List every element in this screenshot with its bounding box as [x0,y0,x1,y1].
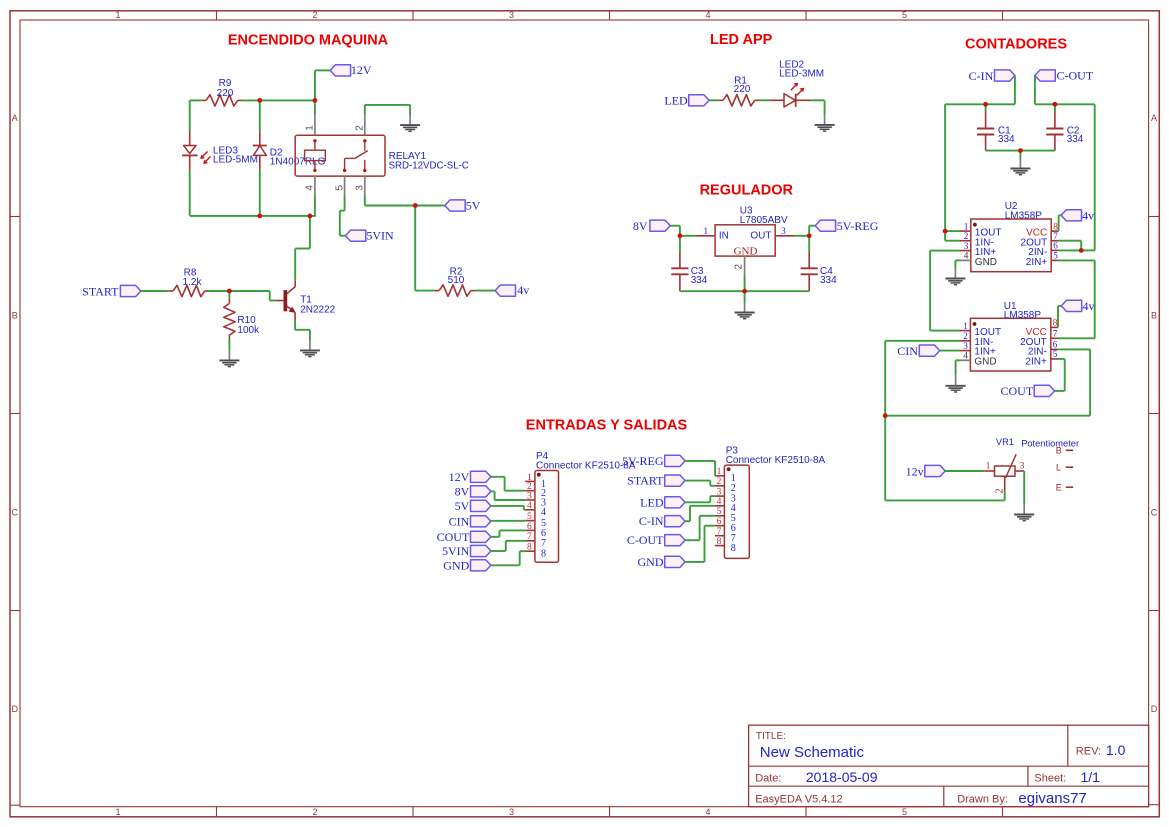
diode D2 [253,131,267,170]
U1 pin 6 stub [1051,348,1058,350]
U1 pin name 1OUT [974,327,1001,338]
svg-text:3: 3 [781,226,786,236]
wire R1 to LED2 [759,99,770,101]
relay pin 5 number [334,185,345,191]
U2 pin name GND [975,257,997,268]
svg-text:LM358P: LM358P [1004,310,1042,321]
svg-text:GND: GND [974,356,996,367]
svg-text:COUT: COUT [1001,384,1034,398]
svg-text:4: 4 [717,497,722,507]
capacitor C2 [1046,112,1063,151]
svg-text:5VIN: 5VIN [366,229,394,243]
relay pin 4 stub [314,176,316,195]
svg-text:GND: GND [638,555,664,569]
svg-text:C: C [1151,508,1158,518]
P3 outer pin numbers 1-8 [717,467,722,547]
svg-text:2: 2 [963,331,968,341]
value label 100k (R10) [237,325,260,336]
svg-text:5VIN: 5VIN [442,544,470,558]
svg-text:START: START [82,284,119,298]
title block label EasyEDA V5.4.12 [755,793,842,805]
node junction 12V-pin1 [313,98,318,103]
label LED3 [213,146,238,157]
title block text 1.0 [1106,742,1126,758]
svg-text:1: 1 [115,807,120,817]
svg-text:334: 334 [691,275,708,286]
node junction OUT-C4 [807,233,812,238]
connector P4 body [535,471,559,563]
wire C2 top lead [1054,104,1056,111]
svg-text:4v: 4v [517,283,529,297]
ruler row letters right [1151,113,1158,714]
U1 pin 3 stub [960,350,971,352]
value label Potentiometer (VR1) [1021,439,1079,449]
wire 8V to P4 pin3 [491,491,525,500]
U2 pin 2 stub [960,240,971,242]
wire 12v to VR1 pin1 [945,470,984,472]
svg-text:OUT: OUT [750,231,771,242]
node junction U2 pin6/7/C-OUT [1079,248,1084,253]
wire VR1 pin3 to ground [1023,471,1025,505]
ground (relay pin 2) [400,115,420,131]
U2 pin 5 stub [1051,259,1058,261]
U2 pin name 2IN- [1028,247,1047,258]
U3 pin name IN [719,231,729,242]
title block text egivans77 [1018,790,1086,807]
svg-text:LED: LED [640,495,664,509]
net flag START [82,284,141,298]
value label 334 (C1) [998,134,1015,145]
value label 510 (R2) [448,275,465,286]
net flag 5VIN [345,229,394,243]
relay switch contact [345,141,368,171]
LED2 emission arrows [791,83,804,96]
svg-text:1/1: 1/1 [1081,769,1101,785]
wire 5VIN to P4 pin7 [491,541,525,551]
wire GND to P4 pin8 [491,551,525,565]
svg-text:2: 2 [355,125,366,131]
P4 inner pin numbers 1-8 [541,479,546,560]
svg-text:5: 5 [1053,349,1058,359]
svg-text:2: 2 [995,489,1006,494]
title block label REV: [1076,745,1101,757]
label VR1 [996,437,1014,447]
svg-text:2: 2 [312,10,317,20]
net flag 12v (VR1) [906,464,946,478]
title block text 1/1 [1081,769,1101,785]
svg-text:LED APP: LED APP [710,32,773,48]
ruler row letters left [12,113,19,714]
ground (C1 C2) [1010,159,1030,175]
svg-text:3: 3 [355,185,366,191]
wire C1 top lead [985,104,987,111]
svg-text:START: START [627,474,664,488]
svg-text:8: 8 [1053,221,1058,231]
svg-text:TITLE:: TITLE: [756,731,786,742]
svg-text:egivans77: egivans77 [1018,790,1086,807]
svg-text:5: 5 [527,512,532,522]
relay pin 3 stub [364,176,366,195]
net flag C-OUT (P3) [627,533,685,547]
wire COUT to P4 pin6 [491,530,525,536]
U1 pin 2 number [963,331,968,341]
label R9 [219,78,232,89]
transistor T1 [275,281,296,321]
section title REGULADOR [700,183,794,199]
wire C3 top [679,236,681,252]
relay pin 4 number [305,185,316,191]
U2 pin 5 number [1053,251,1058,261]
node junction R9-D2 [257,98,262,103]
svg-text:2IN+: 2IN+ [1025,356,1047,367]
U2 pin name 1IN+ [975,247,997,258]
VR1 terminal mark E [1056,482,1073,492]
regulator U3 pin 3 stub [775,235,794,237]
resistor R9 [202,95,242,106]
wire regulator ground rail [680,276,809,303]
svg-text:5: 5 [902,10,907,20]
svg-text:C-IN: C-IN [639,514,664,528]
svg-text:LM358P: LM358P [1005,210,1043,221]
svg-text:1: 1 [986,460,991,470]
U1 pin 6 number [1053,340,1058,350]
op-amp U1 body [970,318,1050,371]
U1 pin name GND [974,356,996,367]
wire U2 pin6 to node [1059,249,1095,251]
resistor R10 [224,299,235,339]
VR1 pin 1 number [986,460,991,470]
U3 pin name GND [734,245,758,257]
U2 pin 6 stub [1051,249,1058,251]
node junction R8-R10 [227,289,232,294]
U2 pin 8 number [1053,221,1058,231]
svg-text:2018-05-09: 2018-05-09 [806,769,878,785]
value label LED-5MM (LED3) [213,155,258,166]
ruler column numbers top [115,10,907,20]
wire LED to P3 pin3 [685,496,715,502]
label R1 [734,75,747,86]
wire LED flag to R1 [709,99,719,101]
wire C-IN to P3 pin4 [685,506,715,521]
value label 1N4007RLG (D2) [270,156,326,167]
svg-text:ENCENDIDO MAQUINA: ENCENDIDO MAQUINA [228,33,389,49]
svg-text:3: 3 [509,10,514,20]
value label SRD-12VDC-SL-C (RELAY1) [389,160,469,171]
wire U2 pin5 to U1 pin7 [1058,260,1095,338]
svg-text:CIN: CIN [449,514,470,528]
net flag C-OUT [1035,68,1094,82]
U2 pin name 1OUT [975,228,1002,239]
U2 pin name 1IN- [975,237,994,248]
node junction D2-bottom [257,214,262,219]
svg-text:3: 3 [717,488,722,498]
U1 pin name 2IN- [1028,347,1047,358]
wire collector branch [295,216,310,281]
wire 5V-REG to P3 pin1 [685,461,715,476]
label C1 [998,125,1011,136]
wire emitter to ground [295,321,310,341]
net flag GND (P3) [638,555,686,569]
wire R10 top lead [228,291,230,299]
wire START to P3 pin2 [685,481,715,486]
wire bottom rail of relay loop [190,215,316,217]
net flag LED [664,94,709,108]
ground (U2) [945,269,965,285]
value label 334 (C4) [820,275,837,286]
svg-text:6: 6 [717,517,722,527]
potentiometer VR1 pin 1 stub [984,470,994,472]
node junction 8V-C3 [678,233,683,238]
wire R2 to 4v flag [475,290,495,292]
U2 pin name VCC [1026,228,1047,239]
svg-text:2IN+: 2IN+ [1026,257,1048,268]
svg-text:220: 220 [217,88,234,99]
title block label Sheet: [1034,773,1066,785]
wire U2 pin4 to ground [955,260,960,268]
svg-text:5V-REG: 5V-REG [622,454,664,468]
wire C-OUT rail [1035,76,1095,251]
svg-text:334: 334 [820,275,837,286]
svg-text:Connector KF2510-8A: Connector KF2510-8A [536,460,636,471]
svg-text:CIN: CIN [897,344,918,358]
svg-text:7: 7 [541,538,546,549]
wire U2 pin1-pin2 tie [945,231,960,241]
svg-text:C-OUT: C-OUT [1057,68,1094,82]
value label 220 (R1) [734,84,751,95]
title block text 2018-05-09 [806,769,878,785]
svg-text:LED-3MM: LED-3MM [779,68,824,79]
U1 pin 5 stub [1051,358,1058,360]
svg-text:6: 6 [527,522,532,532]
svg-text:3: 3 [509,807,514,817]
LED3 emission arrows [200,152,210,165]
svg-text:1.2k: 1.2k [183,277,203,288]
wire LED2 to ground [811,100,825,115]
label RELAY1 [389,151,427,162]
svg-text:6: 6 [541,528,546,539]
wire LED3 branch lower [189,170,191,216]
svg-text:7: 7 [1053,329,1058,339]
section title CONTADORES [965,37,1067,53]
value label 334 (C2) [1067,134,1084,145]
net flag CIN (P4) [449,514,491,528]
wire bottom rail to VR1 pin2 [885,491,1005,501]
svg-text:4v: 4v [1082,208,1094,222]
U1 pin 8 stub [1051,326,1058,328]
U2 pin 2 number [964,231,969,241]
U2 pin 7 number [1053,231,1058,241]
U1 pin name 2OUT [1020,337,1047,348]
ground (R10) [219,350,239,366]
node junction pin4-collector [308,214,313,219]
svg-text:5: 5 [1053,251,1058,261]
U1 pin name VCC [1026,327,1047,338]
value label 2N2222 (T1) [300,304,335,315]
svg-text:E: E [1056,482,1062,492]
value label Connector KF2510-8A (P4) [536,460,636,471]
net flag 8V (P4) [455,484,491,498]
svg-text:5V-REG: 5V-REG [837,219,879,233]
U2 pin 3 number [964,241,969,251]
resistor R8 [169,285,209,296]
value label LM358P (U1) [1004,310,1042,321]
svg-text:GND: GND [975,257,997,268]
wire LED3 branch upper [189,100,191,131]
node junction GND rail [742,289,747,294]
svg-text:1.0: 1.0 [1106,742,1126,758]
P3 inner pin numbers 1-8 [731,473,736,554]
svg-text:5V: 5V [466,198,481,212]
connector P3 pin stubs 1-8 [715,476,725,546]
potentiometer VR1 pin 2 stub [1004,476,1006,491]
U2 pin 7 stub [1051,240,1058,242]
net flag LED (P3) [640,495,685,509]
svg-text:8: 8 [541,549,546,560]
frame corner connector bottom-left [10,804,20,806]
wire 5V to P4 pin4 [491,506,525,510]
U1 pin 4 number [963,351,968,361]
svg-text:4: 4 [964,251,969,261]
potentiometer VR1 body [995,454,1017,478]
svg-text:SRD-12VDC-SL-C: SRD-12VDC-SL-C [389,160,469,171]
wire R8 to base [209,291,275,301]
wire pin3 to 5V [365,195,445,205]
wire 12V to P4 pin2 [491,477,525,491]
U1 pin 5 number [1053,349,1058,359]
wire U2 pin3 to U1 pin1 [930,251,960,331]
U1 pin 1 number [963,321,968,331]
net flag CIN [897,344,939,358]
svg-text:LED: LED [664,94,688,108]
U1 pin name 2IN+ [1025,356,1047,367]
svg-text:New Schematic: New Schematic [760,744,865,761]
wire pin5 to 5VIN [340,195,346,236]
section title LED APP [710,32,773,48]
wire pin2 to ground [365,105,410,115]
svg-text:2: 2 [312,807,317,817]
svg-text:3: 3 [963,341,968,351]
section title ENTRADAS Y SALIDAS [526,418,688,434]
svg-text:4: 4 [541,507,546,518]
node junction U2 pin1 rail [943,229,948,234]
frame corner connector bottom-right [1149,804,1160,806]
node junction caps-ground [1018,148,1023,153]
U2 pin 3 stub [960,250,971,252]
wire U1 pin5 to COUT [1055,359,1065,391]
wire pin1 to 12V node [314,100,316,115]
svg-text:8: 8 [731,543,736,554]
svg-text:5V: 5V [455,499,470,513]
wire U1 pin4 to ground [956,360,961,376]
svg-text:A: A [1151,113,1157,123]
svg-text:2: 2 [734,264,745,270]
ground (T1 emitter) [300,340,320,356]
title block label Drawn By: [957,793,1008,805]
relay switch pin dots [343,139,367,172]
wire START to R8 [141,290,169,292]
wire U1 pin8 to 4v flag [1058,306,1061,328]
wire 5V node to R2 [415,206,435,291]
svg-text:8V: 8V [455,484,470,498]
capacitor C4 [801,251,818,291]
value label L7805ABV (U3) [740,215,788,226]
svg-text:2: 2 [717,477,722,487]
wire CIN to U1 pin3 [940,350,960,352]
connector P3 body [724,465,749,558]
svg-text:7: 7 [1053,231,1058,241]
svg-text:IN: IN [719,231,729,242]
VR1 terminal mark L [1056,462,1073,472]
svg-text:8V: 8V [633,219,648,233]
label U2 [1005,201,1018,212]
relay pin 1 number [305,125,316,131]
wire D2 branch lower [259,170,261,216]
svg-text:1: 1 [305,125,316,131]
relay coil pin dots [313,139,316,172]
svg-text:334: 334 [998,134,1015,145]
wire R10 to ground [228,339,230,350]
node junction C-OUT/C2 [1053,102,1058,107]
ground (LED2) [815,115,835,131]
svg-text:4: 4 [705,10,710,20]
net flag 8V [633,219,670,233]
svg-text:8: 8 [717,537,722,547]
svg-text:B: B [1151,311,1157,321]
relay coil [305,141,326,171]
net flag COUT [1001,384,1055,398]
net flag 4v (R2) [495,283,529,297]
relay pin 2 stub [364,115,366,135]
ruler row ticks left [10,217,20,611]
regulator U3 pin 2 number [734,264,745,270]
svg-text:7: 7 [717,527,722,537]
title block label Date: [755,773,781,785]
wire 12V flag to node [315,70,330,100]
svg-text:12V: 12V [351,63,372,77]
svg-text:A: A [12,113,18,123]
svg-text:C-IN: C-IN [969,69,994,83]
svg-text:3: 3 [964,241,969,251]
op-amp U2 body [971,219,1051,272]
relay pin 3 number [355,185,366,191]
ruler column numbers bottom [115,807,907,817]
label R2 [450,266,463,277]
svg-text:REV:: REV: [1076,745,1101,757]
net flag 12V [330,63,372,77]
net flag 4v (U1) [1061,299,1094,313]
net flag GND (P4) [443,558,491,572]
svg-text:D: D [12,704,19,714]
label C4 [820,266,833,277]
svg-text:C-OUT: C-OUT [627,533,664,547]
svg-text:334: 334 [1067,134,1084,145]
ruler column ticks top [217,11,1003,20]
wire U1 pin6 to bottom rail [885,349,1090,415]
U3 pin name OUT [750,231,771,242]
svg-text:L7805ABV: L7805ABV [740,215,788,226]
VR1 pin 2 number [995,489,1006,494]
node junction 5V-R2 [413,203,418,208]
svg-text:GND: GND [734,245,758,257]
resistor R2 [435,285,475,296]
svg-text:Drawn By:: Drawn By: [957,793,1008,805]
P4 outer pin numbers 1-8 [527,473,532,553]
wire output node to 5V-REG flag [809,226,815,236]
relay pin 5 stub [344,176,346,195]
diode LED2 [770,94,811,107]
value label LED-3MM (LED2) [779,68,824,79]
svg-text:1N4007RLG: 1N4007RLG [270,156,326,167]
